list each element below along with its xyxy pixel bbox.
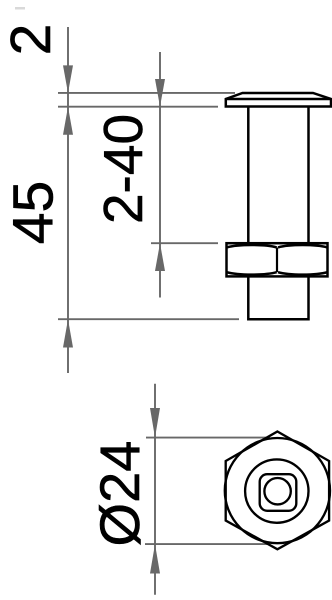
nut middle edge [276,248,278,273]
extension line bolt bottom [58,318,239,320]
faint smudge top-left [15,7,25,10]
arrow down to head bottom (2-40) [155,79,165,107]
extension line circle bottom [145,543,269,545]
dimension line B (2-40) [159,52,161,298]
svg-text:Ø24: Ø24 [88,441,151,547]
svg-text:2: 2 [0,24,63,56]
lower shank outline [248,276,308,319]
chamfer circle [225,438,330,543]
extension line nut top [151,242,218,244]
extension line head top [58,92,235,94]
nut left face top chamfer curve [227,245,277,247]
nut left face bottom chamfer curve [227,272,277,274]
square drive [260,474,297,511]
svg-text:45: 45 [2,181,66,244]
extension line circle top [146,437,270,439]
svg-text:2-40: 2-40 [92,114,154,224]
nut right face top chamfer curve [278,245,327,247]
arrow up to circle bottom (D24) [150,544,160,573]
inner hole circle [264,478,290,504]
arrow down to circle top (D24) [150,408,160,438]
nut right face bottom chamfer curve [278,272,327,274]
arrow down to head top [63,65,73,93]
bolt head outline [226,93,331,107]
dimension line A (2 / 45) [67,27,69,373]
arrow up to nut top (2-40) [155,243,165,271]
dimension line C (D24) [154,384,156,595]
bolt head chamfer line [226,98,331,101]
arrow up to head bottom [63,107,73,135]
shaft upper left line [247,107,250,244]
extension line head bottom [58,106,218,108]
hexagon [226,432,329,550]
arrow up to bolt bottom [63,319,73,347]
shank circle [245,459,308,522]
nut outline [227,243,328,276]
shaft upper right line [307,107,310,244]
